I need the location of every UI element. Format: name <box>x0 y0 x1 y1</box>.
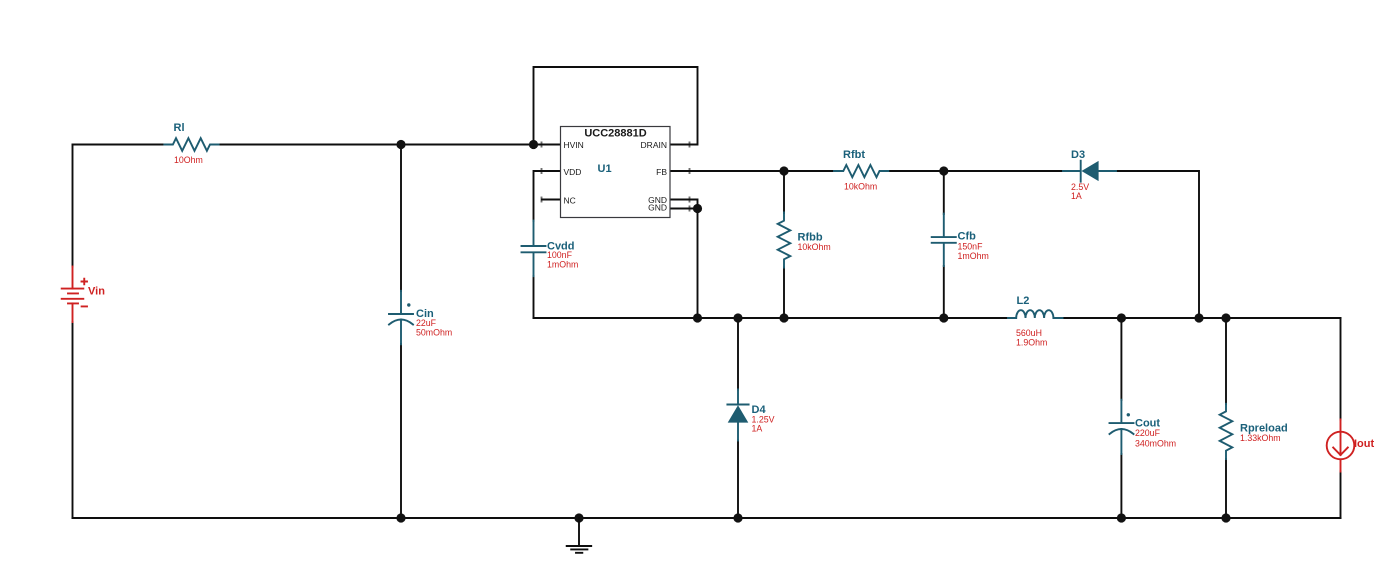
svg-text:1.33kOhm: 1.33kOhm <box>1240 433 1281 443</box>
svg-text:100nF: 100nF <box>547 250 573 260</box>
wire Rpreload branch lower <box>1225 459 1227 518</box>
junction mid bus / Rpreload branch <box>1221 313 1230 322</box>
svg-text:150nF: 150nF <box>958 242 984 252</box>
wire mid bus: L2 right to Iout corner <box>1063 317 1341 319</box>
wire GND pin 2 to junction, down to mid bus <box>670 209 698 319</box>
wire Cin branch lower: Cin down to ground bus <box>400 344 402 518</box>
svg-text:U1: U1 <box>598 163 612 175</box>
IC U1 UCC28881D <box>561 127 671 218</box>
svg-text:UCC28881D: UCC28881D <box>584 128 646 140</box>
wire Cfb branch upper <box>943 171 945 214</box>
wire Rfbb branch lower <box>783 268 785 319</box>
wire Iout branch upper <box>1340 318 1342 420</box>
wire Cout branch upper <box>1120 318 1122 400</box>
wire FB net: FB pin to Rfbt left <box>670 170 834 172</box>
wire Cvdd bottom to mid bus <box>533 276 535 318</box>
junction ground bus / Rpreload <box>1221 513 1230 522</box>
wire bottom ground bus <box>73 517 1341 519</box>
wire top net: Rl right to HVIN pin <box>219 144 561 146</box>
svg-text:NC: NC <box>564 196 576 206</box>
junction mid bus / D3 branch <box>1194 313 1203 322</box>
resistor Rpreload <box>1220 404 1288 459</box>
wire left branch: Vin - terminal down to bottom ground bus <box>72 322 74 518</box>
junction mid bus / D4 branch <box>733 313 742 322</box>
wire mid bus: Cvdd corner to L2 left <box>534 317 1009 319</box>
junction mid bus / Cfb branch <box>939 313 948 322</box>
junction ground bus / ground symbol <box>574 513 583 522</box>
capacitor Cvdd <box>522 221 579 277</box>
svg-text:VDD: VDD <box>564 167 582 177</box>
current source Iout <box>1327 420 1375 472</box>
resistor Rfbt <box>834 149 888 192</box>
resistor Rfbb <box>778 212 831 267</box>
svg-text:1.9Ohm: 1.9Ohm <box>1016 338 1047 348</box>
wire left branch: top corner down to Vin + terminal <box>72 145 74 267</box>
svg-text:1A: 1A <box>752 424 763 434</box>
wire D3 right lead to corner, down to mid bus <box>1116 171 1199 318</box>
voltage source Vin (battery) <box>62 267 105 323</box>
resistor Rl <box>164 122 218 165</box>
inductor L2 <box>1008 295 1063 348</box>
capacitor Cout (polarized) <box>1110 400 1177 454</box>
svg-text:560uH: 560uH <box>1016 328 1042 338</box>
wire VDD to Cvdd: from VDD pin left then down <box>534 171 562 221</box>
wire Cout branch lower <box>1120 454 1122 518</box>
svg-text:1mOhm: 1mOhm <box>958 251 989 261</box>
wire GND pin 1 jog <box>670 200 698 209</box>
svg-text:Rl: Rl <box>174 122 185 134</box>
junction ground bus / D4 <box>733 513 742 522</box>
junction ground bus / Cin <box>396 513 405 522</box>
junction top net / Cin <box>396 140 405 149</box>
ground symbol <box>567 518 592 553</box>
svg-text:HVIN: HVIN <box>564 140 584 150</box>
junction mid bus / Cout branch <box>1117 313 1126 322</box>
diode D4 <box>727 390 774 441</box>
svg-text:220uF: 220uF <box>1135 428 1161 438</box>
diode D3 <box>1063 149 1116 201</box>
wire Cfb branch lower <box>943 266 945 318</box>
svg-text:10kOhm: 10kOhm <box>844 182 877 192</box>
wire FB net: Rfbt right to D3 left lead <box>888 170 1063 172</box>
wire DRAIN loop: drain pin right, up, across top, down to HVIN node <box>534 67 698 145</box>
wire Cin branch upper: top net down to Cin <box>400 145 402 292</box>
svg-text:Iout: Iout <box>1354 438 1374 450</box>
junction top net / HVIN loop <box>529 140 538 149</box>
svg-text:D3: D3 <box>1071 149 1085 161</box>
wire NC stub <box>542 199 561 201</box>
junction mid bus / GND branch <box>693 313 702 322</box>
junction FB net / Rfbb <box>779 166 788 175</box>
wire D4 branch upper <box>737 318 739 390</box>
svg-text:10kOhm: 10kOhm <box>798 242 831 252</box>
capacitor Cfb <box>932 214 989 267</box>
svg-text:340mOhm: 340mOhm <box>1135 438 1176 448</box>
wire Iout branch lower <box>1340 472 1342 519</box>
svg-text:1A: 1A <box>1071 191 1082 201</box>
wire Rfbb branch upper <box>783 171 785 213</box>
wire Rpreload branch upper <box>1225 318 1227 404</box>
svg-text:GND: GND <box>648 202 667 212</box>
wire D4 branch lower <box>737 441 739 519</box>
chip pin end ticks <box>542 143 690 211</box>
svg-text:10Ohm: 10Ohm <box>174 155 203 165</box>
svg-text:Vin: Vin <box>88 286 105 298</box>
junction FB net / Cfb <box>939 166 948 175</box>
junction GND pins <box>693 204 702 213</box>
junction ground bus / Cout <box>1117 513 1126 522</box>
svg-text:DRAIN: DRAIN <box>641 140 667 150</box>
wire top net: Vin+ to Rl left <box>73 144 165 146</box>
svg-text:22uF: 22uF <box>416 318 437 328</box>
svg-text:FB: FB <box>656 167 667 177</box>
svg-text:50mOhm: 50mOhm <box>416 328 452 338</box>
svg-text:L2: L2 <box>1017 295 1030 307</box>
svg-text:1mOhm: 1mOhm <box>547 260 578 270</box>
junction mid bus / Rfbb branch <box>779 313 788 322</box>
capacitor Cin (polarized) <box>389 291 452 345</box>
svg-text:Rfbt: Rfbt <box>843 149 865 161</box>
